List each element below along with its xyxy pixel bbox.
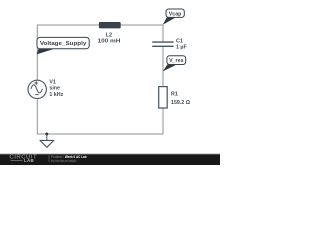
svg-text:http://circuitlab.com/cdk4p5d: http://circuitlab.com/cdk4p5d xyxy=(51,159,76,163)
svg-text:LAB: LAB xyxy=(24,158,34,163)
svg-text:Vcap: Vcap xyxy=(169,11,182,17)
net flag Voltage_Supply xyxy=(37,37,90,54)
svg-text:V_res: V_res xyxy=(169,58,183,64)
svg-text:159.2 Ω: 159.2 Ω xyxy=(171,100,191,106)
svg-text:L2: L2 xyxy=(106,32,112,38)
wire right side from capacitor to resistor xyxy=(162,47,164,87)
inductor L2 xyxy=(99,22,121,28)
svg-text:Voltage_Supply: Voltage_Supply xyxy=(40,41,87,47)
wire top from left corner to right corner xyxy=(37,25,163,80)
ground xyxy=(40,134,54,147)
svg-text:R1: R1 xyxy=(171,92,178,98)
svg-text:1 µF: 1 µF xyxy=(176,45,187,51)
footer bar xyxy=(0,155,220,165)
svg-text:1 kHz: 1 kHz xyxy=(49,92,63,98)
capacitor C1 xyxy=(152,42,173,46)
net flag Vcap xyxy=(163,9,185,25)
wire right side resistor to bottom and bottom wire xyxy=(37,99,163,134)
svg-text:100 mH: 100 mH xyxy=(98,39,121,45)
footer separator xyxy=(48,155,50,162)
footer logo CIRCUIT LAB xyxy=(9,155,37,163)
net flag V_res xyxy=(163,56,186,72)
resistor R1 xyxy=(159,87,168,108)
svg-text:sine: sine xyxy=(49,86,60,92)
junction dot at ground node xyxy=(45,133,48,136)
voltage source V1 xyxy=(28,80,46,98)
svg-text:V1: V1 xyxy=(49,79,56,85)
